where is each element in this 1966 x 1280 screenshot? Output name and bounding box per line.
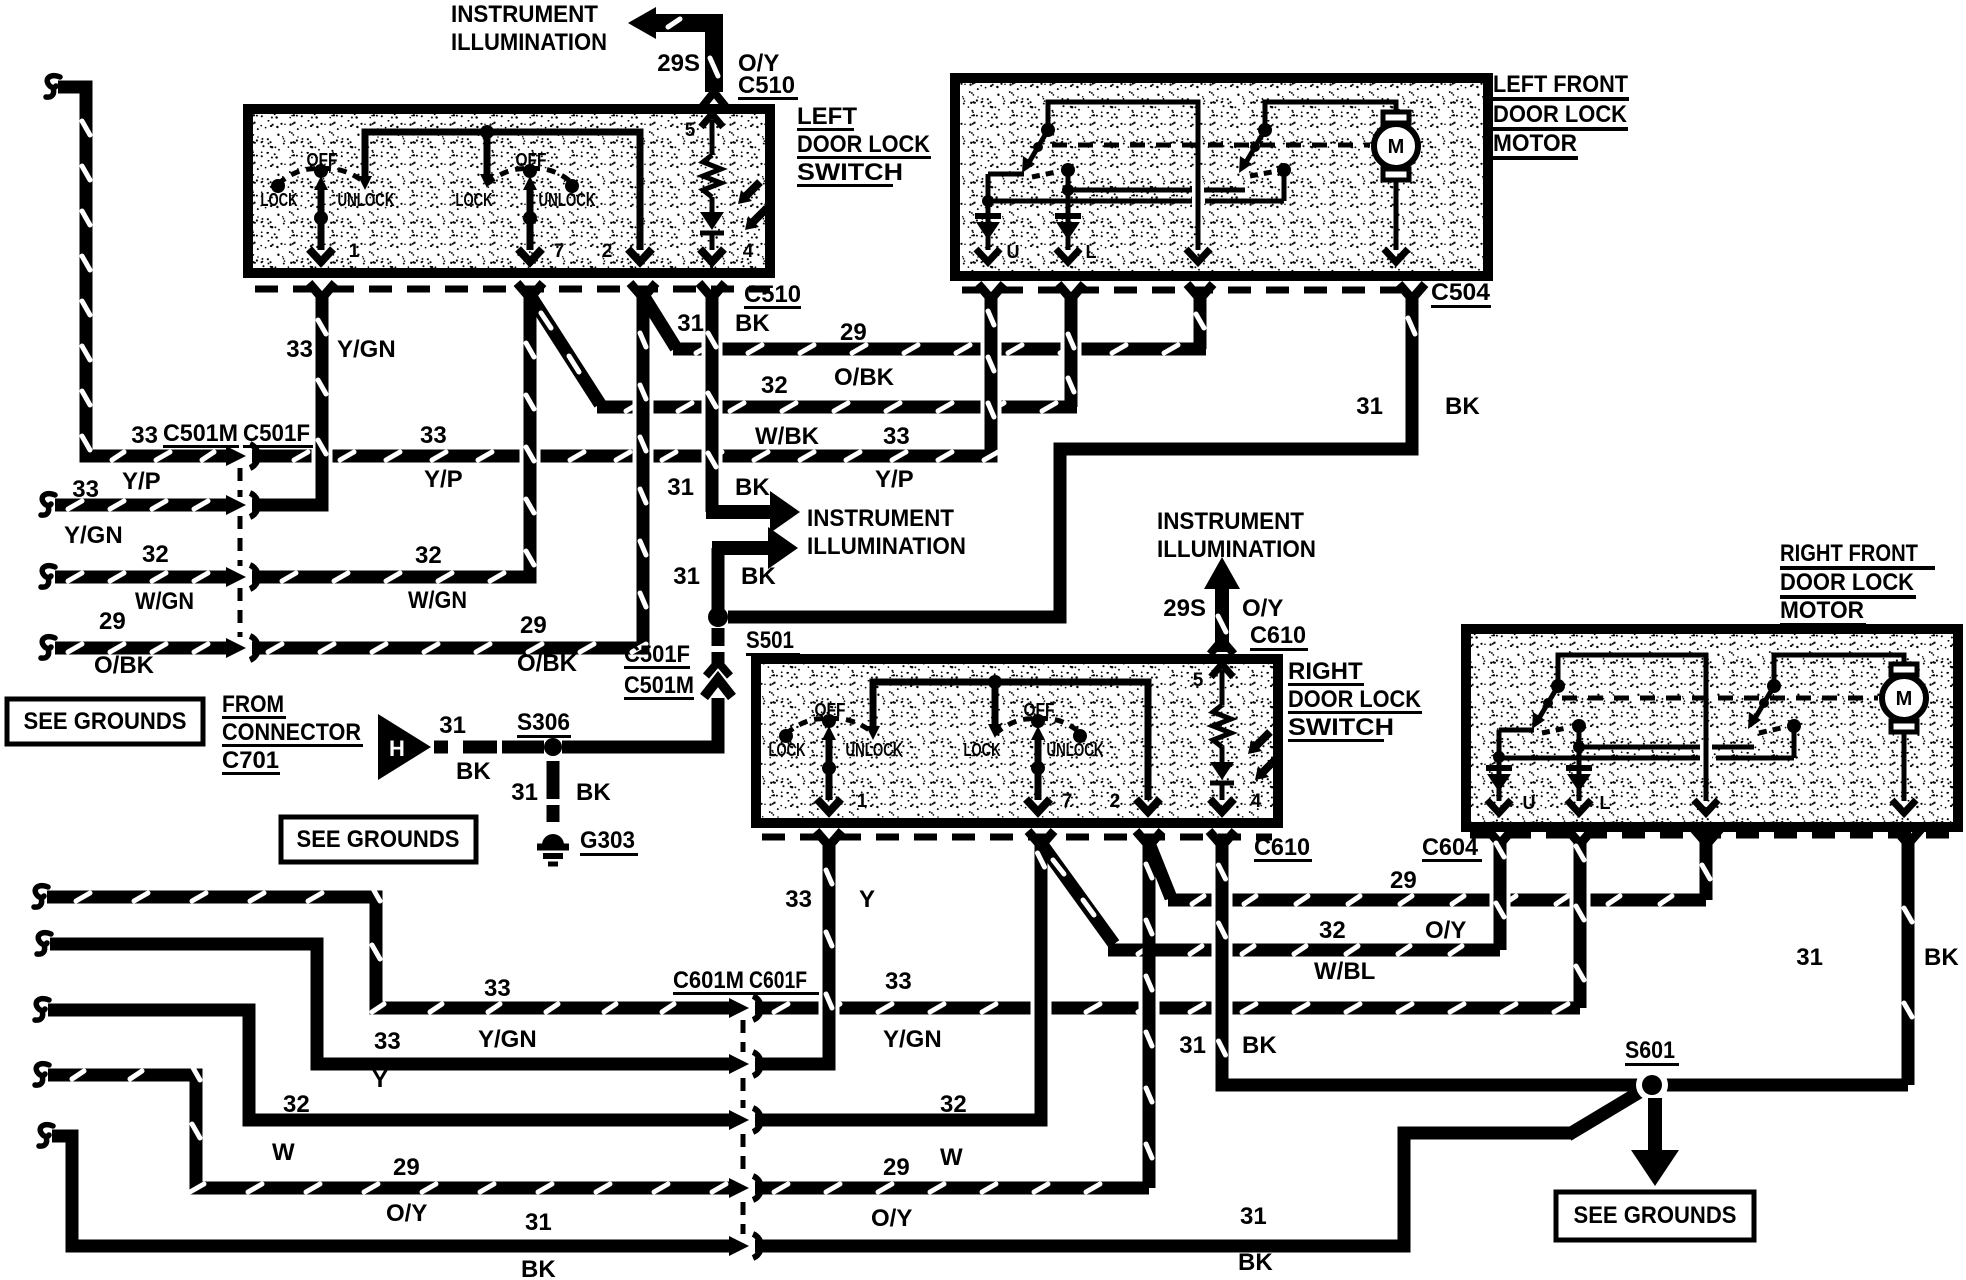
- svg-text:SEE GROUNDS: SEE GROUNDS: [1574, 1202, 1737, 1229]
- switch rail left (right motor): [1558, 655, 1706, 801]
- connector C601M/C601F column: [741, 1020, 746, 1234]
- svg-text:29: 29: [883, 1154, 910, 1181]
- connector C610 dashed line: [762, 834, 1272, 841]
- C601 connector pair at y=1008: [729, 998, 749, 1018]
- riser 29 O/Y to C604 center pin: [1700, 841, 1713, 900]
- svg-text:DOOR LOCK: DOOR LOCK: [797, 131, 931, 158]
- wire 33 Y/GN bottom left: [47, 897, 731, 1008]
- wire 31 BK pin4 to instrument illumination: [706, 295, 719, 512]
- svg-text:32: 32: [415, 542, 442, 569]
- svg-text:Y/GN: Y/GN: [883, 1026, 942, 1053]
- C610 connector pin at x=829: [816, 831, 842, 846]
- svg-text:C501F: C501F: [624, 641, 690, 668]
- left door lock switch box: [248, 109, 770, 273]
- svg-text:29: 29: [393, 1154, 420, 1181]
- svg-text:OFF: OFF: [307, 150, 338, 170]
- svg-text:BK: BK: [521, 1256, 556, 1280]
- svg-text:L: L: [1600, 793, 1611, 813]
- svg-text:ILLUMINATION: ILLUMINATION: [451, 29, 607, 56]
- svg-text:31: 31: [673, 563, 700, 590]
- right door lock switch box: [756, 659, 1278, 823]
- svg-text:33: 33: [286, 336, 313, 363]
- inner horizontal rails: [1072, 188, 1192, 193]
- svg-text:LEFT FRONT: LEFT FRONT: [1493, 71, 1628, 98]
- crossing gap on center rail (right): [1700, 740, 1712, 765]
- C510 connector pin at x=322: [309, 283, 335, 298]
- svg-text:32: 32: [283, 1091, 310, 1118]
- svg-text:U: U: [1007, 242, 1020, 262]
- svg-text:BK: BK: [735, 310, 770, 337]
- U diode path: [988, 172, 1024, 177]
- ground G303: [542, 834, 564, 845]
- wire 29 O/BK switch to motor: [643, 295, 676, 349]
- svg-text:INSTRUMENT: INSTRUMENT: [1157, 508, 1304, 535]
- svg-text:C510: C510: [744, 281, 801, 308]
- svg-text:31: 31: [1796, 944, 1823, 971]
- svg-text:S601: S601: [1625, 1037, 1675, 1064]
- svg-text:C501M: C501M: [163, 420, 238, 447]
- svg-text:33: 33: [484, 975, 511, 1002]
- see grounds box 1: [7, 699, 203, 744]
- wire 33 W/BK Y/P from C501 to motor U pin: [252, 294, 991, 456]
- svg-text:L: L: [1086, 242, 1097, 262]
- svg-text:G303: G303: [580, 827, 635, 854]
- svg-text:31: 31: [667, 474, 694, 501]
- svg-text:32: 32: [761, 372, 788, 399]
- svg-text:W/BL: W/BL: [1314, 958, 1375, 985]
- C610 connector pin at x=1149: [1136, 831, 1162, 846]
- svg-text:LOCK: LOCK: [769, 740, 806, 760]
- svg-text:33: 33: [785, 886, 812, 913]
- svg-text:2: 2: [602, 241, 613, 262]
- switch 1 contacts (right): [779, 729, 793, 743]
- C604 connector pin at x=1908: [1895, 829, 1921, 844]
- svg-text:C501F: C501F: [243, 420, 310, 447]
- svg-text:W/GN: W/GN: [408, 587, 467, 614]
- svg-text:Y: Y: [372, 1066, 388, 1093]
- rail junction node: [480, 125, 494, 139]
- S601 ground arrow: [1648, 1098, 1662, 1152]
- svg-text:C610: C610: [1250, 622, 1306, 649]
- svg-text:31: 31: [439, 712, 466, 739]
- see grounds box 2: [281, 817, 476, 862]
- wire 33 Y/GN to switch pin 1: [312, 443, 333, 469]
- svg-text:O/Y: O/Y: [1242, 595, 1283, 622]
- switch 1 dashed arc: [278, 169, 364, 184]
- wire 29 O/BK left of connector: [55, 642, 228, 655]
- svg-text:RIGHT: RIGHT: [1288, 658, 1363, 685]
- svg-text:BK: BK: [1238, 1249, 1273, 1276]
- svg-text:LOCK: LOCK: [456, 190, 493, 210]
- svg-text:32: 32: [940, 1091, 967, 1118]
- switch 2 contacts (right): [1073, 729, 1087, 743]
- switch 2 wiper: [523, 176, 537, 190]
- svg-text:5: 5: [685, 120, 696, 141]
- C504 connector pin at x=1071: [1058, 284, 1084, 299]
- svg-text:SEE GROUNDS: SEE GROUNDS: [24, 708, 187, 735]
- svg-text:S501: S501: [746, 627, 794, 654]
- switch rail pin2 (right switch): [873, 682, 1148, 800]
- C601 connector pair at y=1120: [729, 1110, 749, 1130]
- wire 32 W/GN to switch pin 7: [520, 443, 541, 469]
- switch 2 contacts: [565, 179, 579, 193]
- svg-text:29: 29: [840, 319, 867, 346]
- dashed contact link: [1032, 172, 1056, 177]
- svg-text:4: 4: [1251, 791, 1262, 812]
- wire 29 O/Y diagonal from pin 2: [1149, 843, 1171, 898]
- svg-text:C601F: C601F: [749, 967, 807, 994]
- svg-text:C610: C610: [1254, 834, 1310, 861]
- C610 connector pin at x=1222: [1209, 831, 1235, 846]
- svg-text:O/BK: O/BK: [517, 650, 578, 677]
- svg-text:BK: BK: [456, 758, 491, 785]
- svg-text:2: 2: [1110, 791, 1121, 812]
- svg-text:C501M: C501M: [624, 672, 694, 699]
- riser to C504 L pin: [1065, 294, 1078, 407]
- svg-text:C510: C510: [738, 72, 795, 99]
- crossing gap on center rail: [1192, 183, 1204, 208]
- C610 connector pin at x=1041: [1028, 831, 1054, 846]
- svg-text:29: 29: [99, 608, 126, 635]
- svg-text:1: 1: [349, 241, 360, 262]
- svg-text:29S: 29S: [657, 50, 700, 77]
- svg-text:M: M: [1896, 688, 1913, 710]
- wire 29 O/Y bottom left: [48, 1075, 731, 1188]
- svg-text:Y/P: Y/P: [122, 468, 161, 495]
- svg-text:UNLOCK: UNLOCK: [1047, 740, 1104, 760]
- svg-text:31: 31: [1240, 1203, 1267, 1230]
- wire 31 BK C501 to S306: [562, 698, 718, 747]
- switch 2 wiper (right): [1031, 726, 1045, 740]
- svg-text:Y/GN: Y/GN: [337, 336, 396, 363]
- L diode path (right motor): [1572, 719, 1586, 733]
- C601 connector pair at y=1064: [729, 1054, 749, 1074]
- svg-text:S306: S306: [517, 709, 570, 736]
- svg-text:C601M: C601M: [673, 967, 744, 994]
- connector C501M/C501F column: [238, 468, 243, 637]
- wire 33 Y/GN to right motor L pin: [755, 1002, 1580, 1015]
- svg-text:U: U: [1523, 793, 1536, 813]
- connector C510 dashed line: [255, 286, 770, 293]
- connector feet at C510 pin 5: [702, 92, 726, 107]
- svg-text:33: 33: [131, 422, 158, 449]
- connector C604 dashed line: [1470, 832, 1952, 839]
- switch rail left: [1048, 102, 1198, 250]
- svg-text:O/Y: O/Y: [386, 1200, 427, 1227]
- svg-text:33: 33: [374, 1028, 401, 1055]
- svg-text:UNLOCK: UNLOCK: [338, 190, 395, 210]
- svg-text:INSTRUMENT: INSTRUMENT: [451, 1, 598, 28]
- C501 connector pair at y=577: [226, 567, 246, 587]
- wire 33 Y/P left of connector C501: [58, 87, 228, 456]
- left front door lock motor box: [955, 78, 1488, 276]
- svg-text:O/Y: O/Y: [1425, 917, 1466, 944]
- C510 connector pin at x=643: [630, 283, 656, 298]
- svg-text:5: 5: [1193, 670, 1204, 691]
- wire 33 Y bottom left: [50, 944, 731, 1064]
- wire segments H to S306: [434, 741, 544, 754]
- svg-text:31: 31: [1179, 1032, 1206, 1059]
- riser to C504 center pin: [1194, 294, 1207, 349]
- svg-text:LOCK: LOCK: [261, 190, 298, 210]
- svg-text:LEFT: LEFT: [797, 103, 857, 130]
- switch rail pin2: [365, 132, 640, 250]
- switch arm left: [1041, 123, 1055, 137]
- svg-text:SWITCH: SWITCH: [797, 159, 903, 186]
- wire 32 O/BK switch to motor: [530, 295, 600, 404]
- wire 31 BK bottom left: [52, 1136, 731, 1246]
- svg-text:31: 31: [511, 779, 538, 806]
- U diode path (right motor): [1499, 728, 1534, 733]
- svg-text:DOOR LOCK: DOOR LOCK: [1288, 686, 1422, 713]
- svg-text:INSTRUMENT: INSTRUMENT: [807, 505, 954, 532]
- svg-text:M: M: [1388, 136, 1405, 158]
- L diode path: [1061, 163, 1075, 177]
- svg-text:C604: C604: [1422, 834, 1479, 861]
- splice S306: [544, 738, 562, 756]
- svg-text:32: 32: [1319, 917, 1346, 944]
- motor box dashed actuator line (right): [1562, 696, 1878, 701]
- svg-text:1: 1: [857, 791, 868, 812]
- svg-text:31: 31: [1356, 393, 1383, 420]
- wire 29S O/Y to instrument illumination: [652, 23, 714, 92]
- svg-text:31: 31: [525, 1209, 552, 1236]
- svg-text:O/BK: O/BK: [94, 652, 155, 679]
- svg-text:32: 32: [142, 541, 169, 568]
- C604 connector pin at x=1707: [1694, 829, 1720, 844]
- C510 connector pin at x=712: [699, 283, 725, 298]
- svg-text:MOTOR: MOTOR: [1780, 597, 1864, 624]
- switch rail right (right motor): [1774, 655, 1904, 686]
- svg-text:BK: BK: [576, 779, 611, 806]
- C501 connector pair at y=648: [226, 638, 246, 658]
- wire 31 BK S501 to instrument illumination: [712, 548, 725, 611]
- svg-text:29S: 29S: [1163, 595, 1206, 622]
- svg-text:UNLOCK: UNLOCK: [846, 740, 903, 760]
- svg-text:O/Y: O/Y: [871, 1205, 912, 1232]
- svg-text:ILLUMINATION: ILLUMINATION: [1157, 536, 1316, 563]
- svg-text:DOOR LOCK: DOOR LOCK: [1780, 569, 1915, 596]
- switch rail right: [1265, 102, 1396, 130]
- wire 31 BK S306 to ground G303: [547, 761, 560, 822]
- motor box dashed actuator line: [1052, 143, 1370, 148]
- svg-text:W: W: [940, 1144, 963, 1171]
- svg-text:O/BK: O/BK: [834, 364, 895, 391]
- svg-text:33: 33: [883, 423, 910, 450]
- svg-text:OFF: OFF: [516, 150, 547, 170]
- connector C501F / C501M: [706, 662, 730, 676]
- svg-text:31: 31: [677, 310, 704, 337]
- svg-text:C701: C701: [222, 747, 279, 774]
- svg-text:RIGHT FRONT: RIGHT FRONT: [1780, 540, 1918, 567]
- svg-text:BK: BK: [735, 474, 770, 501]
- splice S501: [708, 607, 728, 627]
- switch 1 contacts: [271, 179, 285, 193]
- splice S601: [1636, 1069, 1668, 1101]
- svg-text:W/BK: W/BK: [755, 423, 820, 450]
- svg-text:OFF: OFF: [1024, 700, 1055, 720]
- svg-text:Y/P: Y/P: [424, 466, 463, 493]
- C504 connector pin at x=1200: [1187, 284, 1213, 299]
- C601 connector pair at y=1246: [729, 1236, 749, 1256]
- svg-text:29: 29: [1390, 867, 1417, 894]
- svg-text:H: H: [389, 736, 405, 761]
- wire 29S O/Y up arrow: [1215, 584, 1229, 652]
- switch 1 wiper (right): [822, 726, 836, 740]
- svg-text:7: 7: [554, 241, 565, 262]
- svg-text:29: 29: [520, 612, 547, 639]
- svg-text:BK: BK: [1242, 1032, 1277, 1059]
- C510 connector pin at x=530: [517, 283, 543, 298]
- motor M left: [1383, 112, 1409, 123]
- wire 32 W bottom left: [48, 1010, 731, 1120]
- svg-text:ILLUMINATION: ILLUMINATION: [807, 533, 966, 560]
- svg-text:SWITCH: SWITCH: [1288, 714, 1394, 741]
- svg-text:Y/GN: Y/GN: [64, 522, 123, 549]
- connector C504 dashed line: [962, 287, 1415, 294]
- svg-text:4: 4: [743, 241, 754, 262]
- C504 connector pin at x=991: [978, 284, 1004, 299]
- wire 33 Y/GN left of connector: [55, 499, 228, 512]
- svg-text:C504: C504: [1431, 279, 1491, 306]
- svg-text:OFF: OFF: [815, 700, 846, 720]
- wire 29 O/BK to switch pin 2: [633, 394, 654, 420]
- see grounds box 3: [1556, 1192, 1754, 1240]
- svg-text:SEE GROUNDS: SEE GROUNDS: [297, 826, 460, 853]
- riser 32 W/BL to C604 U pin: [1494, 841, 1507, 950]
- svg-text:DOOR LOCK: DOOR LOCK: [1493, 101, 1628, 128]
- motor M right: [1891, 664, 1917, 675]
- svg-text:Y/P: Y/P: [875, 466, 914, 493]
- connector H from C701: [378, 714, 431, 780]
- wire 31 BK S501 to C501 connector: [712, 628, 725, 664]
- svg-text:33: 33: [420, 422, 447, 449]
- wire 31 BK bottom to S601: [755, 1133, 1572, 1246]
- svg-text:BK: BK: [1445, 393, 1480, 420]
- C501 connector pair at y=456: [226, 446, 246, 466]
- C501 connector pair at y=505: [226, 495, 246, 515]
- C601 connector pair at y=1188: [729, 1178, 749, 1198]
- switch 1 wiper: [314, 176, 328, 190]
- right switch pin 1 riser 33 Y: [819, 995, 840, 1021]
- svg-text:W: W: [272, 1139, 295, 1166]
- svg-text:CONNECTOR: CONNECTOR: [222, 719, 361, 746]
- rail junction node: [988, 675, 1002, 689]
- svg-text:33: 33: [885, 968, 912, 995]
- svg-text:Y: Y: [859, 886, 875, 913]
- svg-text:Y/GN: Y/GN: [478, 1026, 537, 1053]
- wire 29 O/Y right switch pin2 riser: [755, 1182, 1149, 1195]
- svg-text:33: 33: [72, 476, 99, 503]
- svg-text:BK: BK: [741, 563, 776, 590]
- C604 connector pin at x=1580: [1567, 829, 1593, 844]
- svg-text:FROM: FROM: [222, 691, 284, 718]
- resistor / LED column pin5-pin4: [701, 114, 723, 127]
- resistor / LED column (right switch): [1211, 664, 1233, 677]
- svg-text:W/GN: W/GN: [135, 588, 194, 615]
- riser 33 Y/GN to C604 L pin: [1574, 841, 1587, 1008]
- svg-text:LOCK: LOCK: [964, 740, 1001, 760]
- right front door lock motor box: [1466, 629, 1958, 827]
- C604 connector pin at x=1500: [1487, 829, 1513, 844]
- right switch pin 4 wire 31 BK to S601: [1212, 887, 1233, 913]
- right switch pin 7 riser 32 W: [1031, 995, 1052, 1021]
- svg-text:BK: BK: [1924, 944, 1959, 971]
- svg-text:7: 7: [1062, 791, 1073, 812]
- inner horizontal rails (right motor): [1583, 745, 1700, 750]
- wire 31 BK from left motor to S501: [728, 294, 1412, 617]
- wire 32 W/GN left of connector: [55, 571, 228, 584]
- wire 32 W/BL diagonal from pin 7: [1041, 843, 1114, 944]
- C504 connector pin at x=1412: [1399, 284, 1425, 299]
- wire 31 BK right motor output riser: [1902, 841, 1915, 1085]
- svg-text:MOTOR: MOTOR: [1493, 130, 1577, 157]
- right switch pin 2 riser 29 O/Y: [1139, 995, 1160, 1021]
- svg-text:UNLOCK: UNLOCK: [539, 190, 596, 210]
- switch 2 dashed arc: [487, 169, 571, 184]
